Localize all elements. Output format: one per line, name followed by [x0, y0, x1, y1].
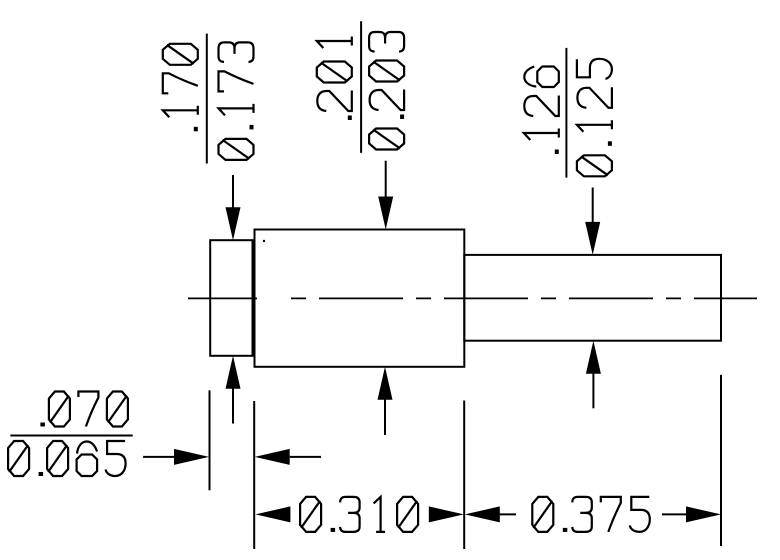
dimension text 0.125 (denominator, rotated)	[577, 59, 612, 177]
dimension 0.375: right arrow with tail	[662, 513, 687, 515]
centerline (dash-dot axis)	[188, 297, 757, 299]
stray dot artifact	[263, 240, 265, 242]
leader arrow down to body top	[385, 161, 387, 201]
fraction bar of .126/0.125	[565, 48, 567, 178]
dimension text 0.065 (denominator)	[8, 441, 126, 476]
dimension text 0.375	[532, 497, 650, 532]
dimension 0.375: left arrow with tail	[465, 506, 500, 522]
extension line at shaft right end	[720, 375, 722, 546]
fraction bar of .070/0.065	[10, 435, 132, 437]
leader arrow down to step top	[232, 175, 234, 212]
extension line at step left edge	[209, 390, 211, 490]
dimension text .201 (numerator, rotated)	[317, 37, 352, 121]
dimension text 0.203 (denominator, rotated)	[369, 32, 404, 150]
leader arrow down to shaft top	[592, 188, 594, 227]
part middle body (diameter .201/.203)	[255, 230, 465, 367]
part right shaft (diameter .126/.125)	[464, 255, 721, 341]
dimension text 0.310	[300, 497, 418, 532]
fraction bar of .201/0.203	[360, 21, 362, 153]
dimension 0.310: right arrow	[429, 506, 464, 522]
extension line at body/shaft junction	[463, 401, 465, 550]
leader arrow up to body bottom	[378, 367, 393, 400]
leader arrow up to step bottom	[226, 356, 241, 389]
dimension text .126 (numerator, rotated)	[524, 67, 559, 155]
part left step (small diameter .170/.173)	[210, 240, 252, 356]
dimension 0.310: left arrow	[255, 506, 290, 522]
left-pointing arrow with tail (right side of .070 gap)	[255, 449, 290, 465]
leader arrow up to shaft bottom	[586, 341, 601, 374]
dimension text .170 (numerator, rotated)	[163, 44, 198, 132]
fraction bar of .170/0.173	[206, 34, 208, 164]
dimension text .070 (numerator)	[40, 392, 128, 427]
leader line and right-pointing arrow to extension line	[143, 456, 178, 458]
dimension text 0.173 (denominator, rotated)	[219, 42, 254, 160]
extension line at step/body junction	[253, 401, 255, 549]
